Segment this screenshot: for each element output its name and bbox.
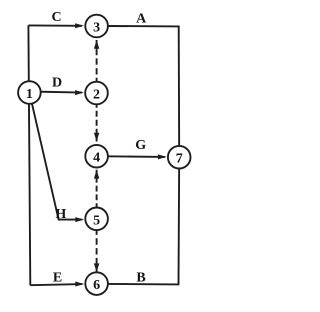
wire dashed dummy 5 to 6 [96, 230, 98, 272]
arrowhead C into node3 [75, 23, 84, 28]
node 7 circle [168, 146, 191, 169]
node 4 circle [85, 145, 108, 168]
wire E horizontal: bottom-left corner to node6 [30, 284, 82, 285]
arrowhead E into node6 [75, 282, 84, 287]
svg-text:E: E [53, 270, 62, 285]
wire B: node6 right, corner, up to node7 [108, 157, 179, 284]
wire dashed dummy 5 to 4 [96, 170, 98, 208]
wire G: node4 to node7 [97, 155, 165, 158]
wire dashed dummy 2 to 4 [96, 104, 98, 141]
svg-text:G: G [135, 138, 146, 153]
svg-text:H: H [55, 207, 66, 222]
svg-text:B: B [136, 270, 145, 285]
node 2 circle [85, 82, 108, 105]
arrowhead dummy into node3 (up) [94, 40, 99, 49]
svg-text:2: 2 [93, 88, 100, 103]
svg-text:3: 3 [93, 21, 100, 36]
svg-text:1: 1 [26, 87, 33, 102]
arrowhead G into node7 [158, 154, 167, 159]
wire C horizontal: node1 corner to node3 [28, 24, 82, 26]
arrowhead dummy into node4 top (down) [94, 133, 99, 142]
arrowhead dummy into node6 (down) [94, 263, 99, 272]
arrowhead H into node5 [75, 217, 84, 222]
svg-text:5: 5 [93, 213, 100, 228]
node 6 circle [85, 272, 108, 295]
node 3 circle [85, 15, 108, 38]
svg-text:4: 4 [93, 151, 100, 166]
arrowhead dummy into node4 bottom (up) [94, 170, 99, 179]
svg-text:C: C [52, 10, 62, 25]
node 1 circle [18, 81, 41, 104]
wire left vertical (node1 trunk) [28, 25, 30, 285]
wire H: node1 diagonal then horizontal to node5 [29, 93, 82, 220]
svg-text:7: 7 [176, 152, 183, 167]
node 5 circle [85, 208, 108, 231]
wire D: node1 to node2 [29, 92, 82, 93]
wire A: node3 right, corner, down to node7 [108, 26, 179, 157]
wire dashed dummy 2 to 3 [96, 40, 98, 82]
svg-text:A: A [136, 12, 147, 27]
arrowhead D into node2 [75, 90, 84, 95]
svg-text:D: D [52, 75, 62, 90]
svg-text:6: 6 [93, 278, 100, 293]
